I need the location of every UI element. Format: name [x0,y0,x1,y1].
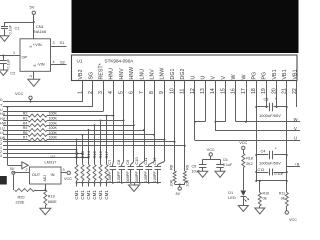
svg-text:LNU: LNU [139,69,145,80]
wire row DG1 [3,141,175,143]
wire CN1 pin4 S2 [51,64,67,66]
svg-text:R9: R9 [184,164,189,170]
wire 5V top rail [5,22,34,24]
svg-text:R10: R10 [263,192,270,196]
svg-text:DG1: DG1 [170,69,176,80]
svg-text:CM1: CM1 [98,190,103,200]
svg-text:1: 1 [13,51,15,55]
svg-text:PG: PG [252,72,258,80]
wire row REST [3,111,103,113]
wire V phase [215,121,225,123]
svg-text:REST*: REST* [99,63,105,79]
wire row VB2 [3,101,83,103]
svg-text:CM1: CM1 [80,190,85,200]
wire C12 top [164,140,166,162]
connector block (cropped, left edge) [0,176,7,185]
svg-text:CM1: CM1 [104,190,109,200]
wire OUT to R20 [13,174,15,190]
svg-text:R15: R15 [92,150,97,158]
svg-text:VB1: VB1 [292,69,298,79]
svg-text:1000uF/50V: 1000uF/50V [259,113,281,118]
wire C9 top [133,125,135,161]
ground D1 [238,206,248,212]
svg-text:CM1: CM1 [86,190,91,200]
svg-text:5V: 5V [30,5,35,10]
svg-text:C7: C7 [107,159,112,165]
wire row hall line R6 [3,134,28,136]
ground CN1 [28,79,40,86]
wire R18 to D1 [243,168,245,191]
wire row CM1-b [3,153,83,155]
resistor R15 [93,165,96,181]
resistor R16 [99,165,102,181]
wire +B to edge [287,166,300,168]
svg-text:C1: C1 [15,26,20,31]
svg-text:100K: 100K [49,131,58,135]
svg-text:100K: 100K [49,117,58,121]
U1 pin wires [82,81,84,102]
resistor R11 0E [286,181,288,193]
svg-text:5V: 5V [176,192,181,196]
capacitor C7 100PF [110,166,117,168]
svg-text:100K: 100K [49,121,58,125]
svg-text:-VIN: -VIN [37,61,45,66]
capacitor C11 100PF [146,166,153,168]
capacitor C1 0.1uF [4,22,6,26]
resistor R7 100K [28,138,47,141]
svg-text:1000uF/50V: 1000uF/50V [259,160,281,165]
wire C11 top [154,135,156,162]
wire R12 vertical [76,140,78,165]
capacitor C6 0.1uF [220,159,222,164]
svg-text:R19: R19 [48,194,55,198]
capacitor C10 300PF [137,166,144,168]
svg-text:2K2: 2K2 [246,162,252,166]
svg-text:R16: R16 [98,150,103,158]
svg-text:C8: C8 [116,159,121,165]
svg-text:17: 17 [241,88,247,94]
wire row hall line R7 [3,139,28,141]
svg-text:3: 3 [63,168,65,172]
wire row hall line R2 [3,115,28,117]
resistor R14 [87,165,90,181]
resistor R8 10K [173,171,176,183]
power node VCC (bottom right) [285,211,288,214]
svg-text:R3: R3 [23,117,28,121]
svg-text:100PF: 100PF [153,171,157,183]
svg-text:VCC: VCC [239,141,247,145]
wire U phase [195,121,205,123]
svg-text:U1: U1 [77,59,83,64]
svg-text:680E: 680E [48,200,57,204]
junction R16 tap [100,119,102,121]
svg-text:HNV: HNV [119,68,125,80]
svg-text:R7: R7 [23,136,28,140]
junction R17 tap [106,115,108,117]
svg-text:100K: 100K [49,136,58,140]
svg-text:R11: R11 [279,192,285,196]
junction dots C3 row [255,106,257,108]
LED D1 [240,191,246,197]
svg-text:LED: LED [228,196,236,200]
resistor R9 10K [183,171,186,183]
capacitor C5 10uF [202,159,204,164]
svg-text:SG: SG [88,72,94,80]
capacitor C4 1000uF/50V [255,154,257,156]
svg-text:INA168: INA168 [33,29,46,34]
wire R14 vertical [88,130,90,165]
svg-text:100K: 100K [49,112,58,116]
svg-text:OUT: OUT [32,172,41,177]
power node 5V (bottom) [178,187,181,190]
svg-text:V: V [221,76,227,80]
junction R13 tap [82,134,84,136]
wire row CM1-c [3,157,89,159]
capacitor C2 0.1uF [3,56,5,61]
ground symbol caps row [134,183,136,185]
junction OP/C2 [2,55,4,57]
wire bottom tie bus [256,180,287,182]
svg-text:C10: C10 [134,157,139,165]
svg-text:U: U [190,76,196,80]
svg-text:R18: R18 [246,157,253,161]
svg-text:W: W [241,75,247,80]
net arrow 5V [8,165,22,167]
resistor R5 100K [28,129,47,132]
resistor R20 220E [15,189,35,192]
svg-text:W: W [231,75,237,80]
capacitor C3 1000uF/50V [256,106,268,108]
svg-text:3: 3 [53,41,55,45]
resistor R18 2K2 [242,154,245,168]
resistor R19 680E [44,190,47,206]
resistor R10 0E [259,181,261,193]
svg-text:C2: C2 [10,71,15,76]
capacitor C13 0.1uF [255,171,257,173]
IC U1 body STK984-090A [72,55,298,81]
svg-text:V: V [211,76,217,80]
wire C8 top [123,120,125,161]
ground R10 [255,208,265,214]
wire ADJ stem [45,184,47,190]
wire row CM1-a [3,149,77,151]
svg-text:300PF: 300PF [126,171,130,183]
junction R12 tap [76,139,78,141]
svg-text:3: 3 [0,154,2,158]
wire row hall line R3 [3,120,28,122]
svg-text:10K: 10K [170,179,174,186]
wire row DG2 [3,145,185,147]
wire D1 cathode [243,196,245,205]
svg-text:LU: LU [0,126,5,130]
svg-text:R8: R8 [169,164,174,170]
svg-text:VB1: VB1 [272,69,278,79]
svg-text:C6: C6 [223,158,228,162]
svg-text:HNU: HNU [109,68,115,80]
svg-text:R4: R4 [23,121,28,125]
svg-text:LM317: LM317 [45,159,57,164]
resistor R3 100K [28,119,47,122]
svg-text:C11: C11 [143,157,148,165]
svg-text:7: 7 [139,91,145,94]
capacitor C12 100PF [155,166,162,168]
svg-text:4: 4 [53,60,55,64]
svg-text:VCC: VCC [289,218,297,222]
svg-text:220E: 220E [16,201,25,205]
ground C5 [198,171,208,177]
junction 5V/CN1 [33,21,35,23]
junction R15 tap [94,124,96,126]
svg-text:R6: R6 [23,131,28,135]
svg-text:VCC: VCC [64,177,72,181]
wire W phase [236,121,246,123]
resistor R2 100K [28,114,47,117]
svg-text:OP: OP [22,54,28,59]
junction dots hall rows at pin corners [112,115,114,117]
svg-text:U: U [201,76,207,80]
svg-text:C9: C9 [125,159,130,165]
wire to CN1 V+ [33,22,35,39]
svg-text:2: 2 [26,168,28,172]
svg-text:5V: 5V [10,167,15,171]
junction R14 tap [88,129,90,131]
svg-text:C5: C5 [192,164,197,168]
wire C5/C6 rail [203,159,220,161]
svg-text:VCC: VCC [15,91,24,96]
wire R15 vertical [94,125,96,164]
capacitor C8 100PF [119,166,126,168]
svg-text:+B: +B [295,162,300,166]
svg-text:+VIN: +VIN [33,42,42,47]
svg-text:300PF: 300PF [135,171,139,183]
wire row hall line R4 [3,125,28,127]
ground C2 [0,70,8,76]
svg-text:R17: R17 [104,150,109,158]
svg-text:LNV: LNV [150,69,156,80]
wire CN1 pin1 OP [0,55,20,57]
svg-text:S2: S2 [60,59,65,64]
svg-text:R20: R20 [18,195,25,199]
svg-text:10K: 10K [185,179,189,186]
svg-text:CM1: CM1 [74,190,79,200]
resistor R4 100K [28,124,47,127]
wire CN1 pin3 S1 [51,46,67,48]
svg-text:C4: C4 [261,149,267,154]
capacitor C9 300PF [128,166,135,168]
resistor R17 [105,165,108,181]
resistor R6 100K [28,133,47,136]
svg-text:100PF: 100PF [144,171,148,183]
svg-text:D: D [0,98,3,102]
resistor R12 [75,165,78,181]
svg-text:100K: 100K [49,126,58,130]
resistor R13 [81,165,84,181]
ground C1 [0,36,9,42]
svg-text:HNW: HNW [129,67,135,80]
svg-text:C13: C13 [258,168,265,172]
svg-text:IN: IN [51,172,55,177]
wire row hall line R5 [3,130,28,132]
svg-text:0.1uF: 0.1uF [6,58,10,68]
wire row SG [3,106,93,108]
svg-text:0.1uF: 0.1uF [223,163,233,167]
svg-text:2: 2 [29,75,33,77]
svg-text:100PF: 100PF [117,171,121,183]
svg-text:D1: D1 [228,191,233,195]
wire R17 vertical [106,116,108,165]
svg-text:CM1: CM1 [92,190,97,200]
svg-text:V: V [294,126,297,131]
svg-text:U2: U2 [51,154,56,159]
ground C6 [215,171,225,177]
svg-text:STK984-090A: STK984-090A [105,59,135,64]
wire R8/R9 join [174,183,176,185]
svg-text:0.1uF: 0.1uF [9,24,13,34]
op-amp CN1 INA168 body [20,39,51,72]
svg-text:ADJ: ADJ [43,175,47,182]
wire R13 vertical [82,135,84,165]
svg-text:U: U [294,136,297,141]
svg-text:R2: R2 [23,112,28,116]
wire C10 top [144,130,146,162]
svg-text:S1: S1 [60,40,65,45]
svg-text:DG2: DG2 [180,69,186,80]
svg-text:LNW: LNW [160,68,166,80]
svg-text:VCC: VCC [207,148,215,152]
wire R16 vertical [100,120,102,164]
wire LM317 IN to VCC [61,172,67,174]
ground bus bottom middle [77,182,162,184]
svg-text:C12: C12 [152,157,157,165]
svg-text:0.1uF: 0.1uF [275,172,285,176]
svg-text:PG: PG [262,72,268,80]
wire 5V drop [7,107,9,165]
svg-text:R5: R5 [23,126,28,130]
ground R19 [40,208,51,215]
module photo (black block) [72,0,299,53]
CN1 ground pin 2 [33,71,35,79]
svg-text:VB2: VB2 [78,69,84,79]
wire LM317 OUT [13,172,29,174]
wire C7 top [113,116,115,162]
junction dots rows F,G,H ends [76,149,78,151]
svg-text:VB1: VB1 [282,69,288,79]
svg-text:100PF: 100PF [108,171,112,183]
svg-text:0E: 0E [263,197,268,201]
svg-text:0E: 0E [281,197,286,201]
svg-text:C3: C3 [264,97,269,102]
regulator U2 LM317 body [30,167,62,184]
svg-text:R12: R12 [74,150,79,158]
